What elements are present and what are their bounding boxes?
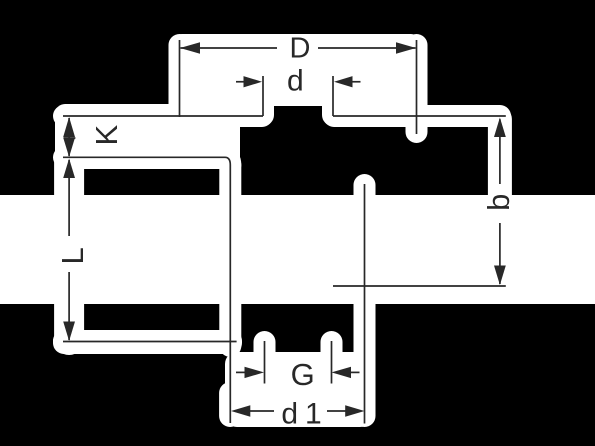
halo D ext lines [169, 45, 191, 115]
extension line G left [264, 341, 266, 384]
svg-text:D: D [290, 32, 311, 64]
arrowhead d1 left [231, 405, 250, 417]
halo second line + corner [64, 157, 230, 165]
fitting left edge [229, 165, 231, 423]
fitting top face line left [63, 115, 263, 117]
white halo strokes hugging ink [64, 45, 505, 416]
halo bottom face line [64, 331, 230, 353]
halo left body vertical [219, 165, 241, 346]
dimension K line [68, 118, 70, 156]
svg-text:d: d [281, 398, 298, 431]
dimension d1 line right [327, 410, 346, 412]
dimension L line lower [68, 272, 70, 340]
arrowhead d left [244, 76, 263, 87]
svg-text:G: G [291, 357, 315, 392]
arrowhead G right [332, 367, 352, 378]
halo face line [64, 105, 262, 127]
dimension b line upper [499, 119, 501, 184]
arrowhead d1 right [345, 405, 364, 417]
dimension G left tail [236, 371, 245, 373]
dimension b line lower [499, 223, 501, 284]
svg-text:K: K [89, 125, 124, 146]
fitting collar line with corner [63, 157, 230, 165]
white matte bottom-left strip [53, 330, 242, 354]
arrowhead L up [63, 159, 75, 179]
svg-text:L: L [55, 247, 90, 264]
extension line d left [262, 76, 264, 116]
fitting right edge [364, 184, 366, 424]
white matte bottom cluster [225, 352, 372, 427]
halo G dimension [237, 361, 359, 383]
dimension L line upper [68, 160, 70, 236]
dimension d right tail [352, 81, 361, 83]
dimension K mid tick [64, 137, 76, 139]
arrowhead b up [494, 118, 506, 138]
socket depth line [333, 285, 506, 287]
halo d1 dimension [239, 400, 356, 422]
ink [63, 40, 506, 424]
halo L dimension [54, 160, 84, 340]
svg-text:1: 1 [305, 398, 322, 431]
dimension d left tail [236, 81, 244, 83]
arrowhead G left [245, 367, 265, 378]
halo K dimension [58, 118, 80, 156]
arrowhead D right [396, 42, 416, 54]
white matte band (full width) [0, 195, 595, 304]
halo right body vertical [354, 185, 376, 416]
halo socket depth line [334, 275, 505, 297]
arrowhead b down [494, 266, 506, 286]
dimension d1 line left [249, 410, 274, 412]
svg-text:b: b [481, 194, 516, 211]
svg-text:d: d [287, 64, 304, 97]
halo d ext lines [252, 76, 274, 115]
extension line d right [332, 76, 334, 116]
extension line G right [331, 341, 333, 384]
white matte left cluster [55, 104, 240, 169]
arrowhead d right [334, 76, 353, 87]
extension line D left [179, 40, 181, 117]
arrowhead D left [180, 42, 200, 54]
fitting top face line right [333, 115, 506, 117]
arrowhead K up [63, 117, 75, 137]
arrowhead K down [63, 138, 75, 157]
dimension line D [181, 47, 278, 49]
white matte top cluster [172, 34, 421, 106]
arrowhead L down [63, 322, 75, 342]
halo b dimension [488, 119, 512, 284]
extension line D right [416, 40, 418, 134]
fitting bottom face line [63, 341, 237, 343]
dimension G right tail [351, 371, 360, 373]
